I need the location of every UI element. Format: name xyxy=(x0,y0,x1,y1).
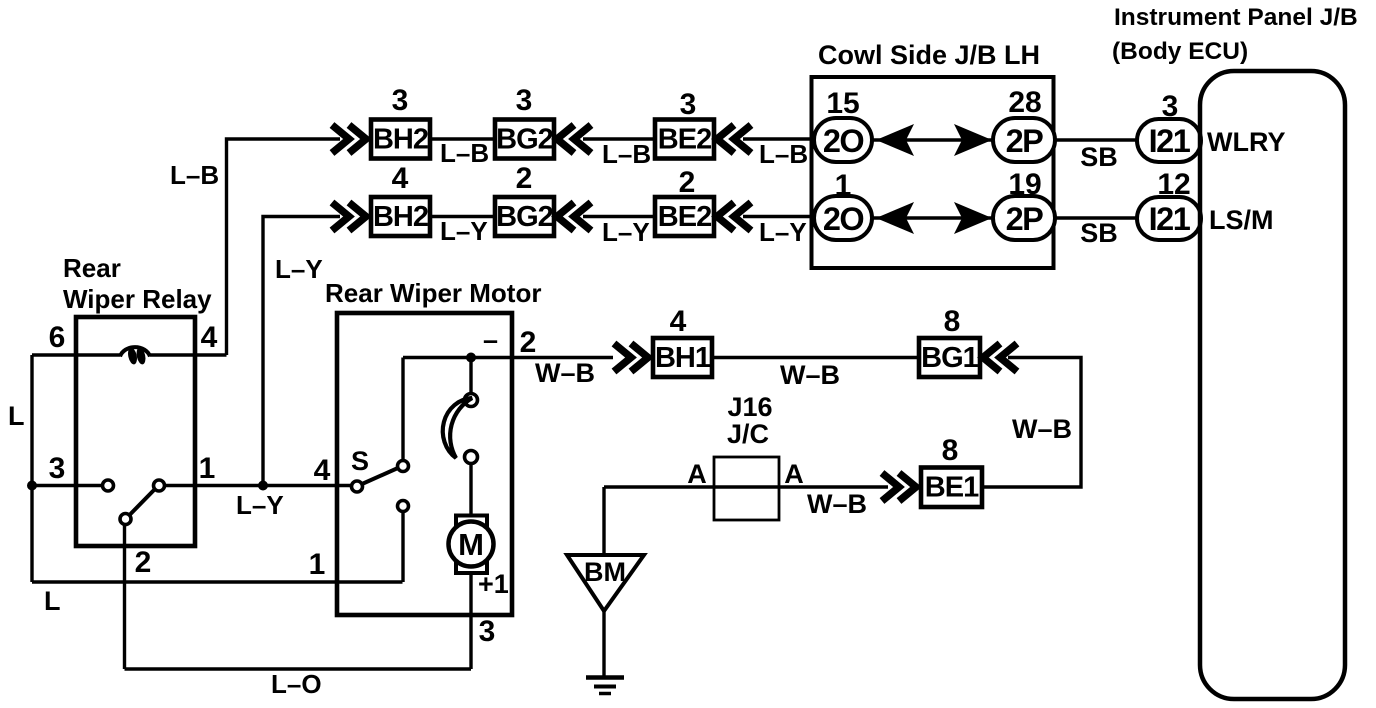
wire relay to motor S xyxy=(164,484,352,487)
svg-text:BG2: BG2 xyxy=(496,201,553,233)
wire inside cowl row1 xyxy=(872,138,993,141)
connector BG2 row1 xyxy=(495,120,554,159)
wire BG1 corner to BE1 xyxy=(982,358,1081,488)
connector BH1 xyxy=(653,338,712,377)
svg-text:W–B: W–B xyxy=(1012,414,1072,444)
cam crescent xyxy=(443,398,472,458)
svg-text:12: 12 xyxy=(1157,168,1190,201)
svg-text:L–O: L–O xyxy=(271,669,322,699)
svg-text:L–Y: L–Y xyxy=(602,217,650,247)
wire BH2 to BG2 row2 xyxy=(430,215,495,218)
arrow left row2 xyxy=(876,202,914,234)
chevrons after BG2 row2 xyxy=(557,203,591,231)
svg-text:Rear: Rear xyxy=(63,253,121,283)
connector BE2 row2 xyxy=(655,197,714,236)
wire BM to BE1 through J16 xyxy=(604,485,888,488)
wire cam top xyxy=(469,358,472,394)
svg-text:2: 2 xyxy=(516,162,533,195)
svg-text:2: 2 xyxy=(135,546,152,579)
svg-text:3: 3 xyxy=(680,88,697,121)
motor S arm xyxy=(362,468,399,485)
svg-text:M: M xyxy=(458,527,484,562)
svg-text:BG1: BG1 xyxy=(921,342,979,374)
wire BH1 to BG1 xyxy=(712,356,919,359)
motor S contact pivot xyxy=(352,481,363,492)
chevrons into BH1 xyxy=(614,344,648,372)
chevrons after BE2 row1 xyxy=(717,125,751,153)
connector BH2 row2 xyxy=(371,197,430,236)
connector BE2 row1 xyxy=(655,120,714,159)
svg-text:BE1: BE1 xyxy=(925,472,979,504)
connector 2O row2 xyxy=(814,196,872,240)
wire left vertical L xyxy=(30,355,33,582)
junction block J16 xyxy=(714,457,779,520)
arrow right row2 xyxy=(954,202,992,234)
svg-text:28: 28 xyxy=(1008,86,1041,119)
wire BG2 to BE2 row2 xyxy=(583,215,655,218)
svg-text:6: 6 xyxy=(49,321,66,354)
chevrons after BG2 row1 xyxy=(557,125,591,153)
connector I21 row1 xyxy=(1137,119,1201,162)
svg-text:BH2: BH2 xyxy=(373,201,428,233)
svg-text:L: L xyxy=(44,586,61,616)
svg-text:L–B: L–B xyxy=(602,139,651,169)
wire BH2 to BG2 xyxy=(430,137,495,140)
svg-text:2P: 2P xyxy=(1006,201,1044,237)
svg-text:4: 4 xyxy=(670,305,687,338)
svg-text:1: 1 xyxy=(199,452,216,485)
svg-text:L–B: L–B xyxy=(170,160,219,190)
node junction dot L-Y xyxy=(258,481,268,491)
svg-text:2: 2 xyxy=(679,166,696,199)
svg-text:BE2: BE2 xyxy=(658,124,711,156)
wire 2P to I21 row2 xyxy=(1055,216,1137,219)
svg-text:Cowl Side J/B LH: Cowl Side J/B LH xyxy=(818,40,1040,70)
svg-text:BE2: BE2 xyxy=(658,201,711,233)
wire L-B feed from relay coil up to row1 xyxy=(227,139,341,355)
node minus junction xyxy=(466,353,476,363)
svg-text:BG2: BG2 xyxy=(496,124,553,156)
svg-text:W–B: W–B xyxy=(535,358,595,388)
svg-text:3: 3 xyxy=(392,84,409,117)
wire BG2 to BE2 xyxy=(583,137,655,140)
svg-text:15: 15 xyxy=(826,87,859,120)
motor contact upper xyxy=(398,461,409,472)
motor brush bottom xyxy=(456,562,487,574)
svg-text:L–Y: L–Y xyxy=(440,216,488,246)
connector BG2 row2 xyxy=(495,197,554,236)
wire relay pin2 drop xyxy=(123,524,126,669)
cowl side J/B box xyxy=(812,77,1054,268)
svg-text:J/C: J/C xyxy=(727,419,769,449)
relay coil wire xyxy=(32,353,227,356)
svg-text:4: 4 xyxy=(392,162,409,195)
relay coil xyxy=(120,347,150,356)
svg-text:8: 8 xyxy=(944,305,961,338)
wire minus node to pin 2 xyxy=(403,356,613,359)
chevrons into BH2 row1 xyxy=(332,125,366,153)
svg-text:2O: 2O xyxy=(823,201,864,237)
wire bottom L-O xyxy=(125,667,472,670)
connector BH2 row1 xyxy=(371,120,430,159)
wire BE2 to cowl 2O row2 xyxy=(743,215,814,218)
relay contact circle left xyxy=(103,480,114,491)
svg-text:4: 4 xyxy=(201,321,218,354)
svg-text:19: 19 xyxy=(1008,168,1041,201)
wire BM to ground xyxy=(602,611,605,677)
rear wiper relay box xyxy=(76,317,195,546)
svg-text:SB: SB xyxy=(1080,142,1118,172)
cam contact bottom xyxy=(465,451,478,464)
motor brush top xyxy=(456,516,487,528)
svg-text:4: 4 xyxy=(314,454,331,487)
svg-text:L–Y: L–Y xyxy=(236,490,284,520)
rear wiper motor box xyxy=(337,313,512,615)
svg-text:L–B: L–B xyxy=(759,139,808,169)
wire BM drop xyxy=(602,487,605,555)
connector I21 row2 xyxy=(1137,197,1201,240)
connector 2O row1 xyxy=(814,118,872,162)
wire relay pin3 stub xyxy=(32,484,103,487)
wire lower L xyxy=(32,580,403,583)
wire inside cowl row2 xyxy=(872,216,993,219)
ground triangle BM xyxy=(567,555,644,611)
svg-text:3: 3 xyxy=(516,84,533,117)
wire lower contact to pin1 wire xyxy=(401,512,404,583)
svg-text:2O: 2O xyxy=(823,123,864,159)
wire 2P to I21 row1 xyxy=(1055,138,1137,141)
svg-text:W–B: W–B xyxy=(780,360,840,390)
svg-text:A: A xyxy=(687,459,707,489)
svg-text:Instrument Panel J/B: Instrument Panel J/B xyxy=(1114,4,1358,31)
svg-text:Wiper Relay: Wiper Relay xyxy=(63,284,212,314)
svg-text:S: S xyxy=(351,446,369,476)
svg-text:1: 1 xyxy=(309,548,326,581)
relay contact circle bottom xyxy=(120,514,131,525)
svg-text:BH1: BH1 xyxy=(655,342,711,374)
svg-text:I21: I21 xyxy=(1149,201,1191,237)
chevrons after BG1 xyxy=(983,344,1017,372)
wire BE2 to cowl 2O row1 xyxy=(743,137,814,140)
svg-text:L–Y: L–Y xyxy=(759,217,807,247)
connector 2P row2 xyxy=(993,196,1055,240)
svg-text:L–B: L–B xyxy=(440,138,489,168)
chevrons into BH2 row2 xyxy=(332,203,366,231)
wire L-Y feed row2 xyxy=(263,217,340,486)
relay contact circle right xyxy=(154,480,165,491)
svg-text:3: 3 xyxy=(479,615,496,648)
arrow right row1 xyxy=(954,124,992,156)
svg-text:–: – xyxy=(483,325,498,355)
svg-text:3: 3 xyxy=(49,452,66,485)
relay switch arm xyxy=(130,490,154,515)
svg-text:LS/M: LS/M xyxy=(1209,205,1274,235)
svg-text:L–Y: L–Y xyxy=(275,254,323,284)
chevrons after BE2 row2 xyxy=(717,203,751,231)
connector BG1 xyxy=(919,338,980,377)
ground symbol xyxy=(586,678,624,694)
svg-text:+1: +1 xyxy=(478,569,509,599)
arrow left row1 xyxy=(876,124,914,156)
cam contact top xyxy=(465,394,478,407)
svg-text:(Body ECU): (Body ECU) xyxy=(1112,38,1248,65)
svg-text:WLRY: WLRY xyxy=(1207,127,1285,157)
svg-text:I21: I21 xyxy=(1149,123,1191,159)
svg-text:A: A xyxy=(784,459,804,489)
chevrons into BE1 xyxy=(882,473,916,501)
svg-text:W–B: W–B xyxy=(807,489,867,519)
node junction dot left xyxy=(27,481,37,491)
svg-text:8: 8 xyxy=(942,434,959,467)
connector BE1 xyxy=(921,468,982,508)
motor M circle xyxy=(449,522,494,567)
svg-text:L: L xyxy=(8,401,25,431)
wire cam to motor xyxy=(469,464,472,523)
svg-text:BM: BM xyxy=(584,557,626,587)
connector 2P row1 xyxy=(993,118,1055,162)
svg-text:BH2: BH2 xyxy=(373,124,428,156)
svg-text:3: 3 xyxy=(1162,90,1179,123)
svg-text:Rear Wiper Motor: Rear Wiper Motor xyxy=(325,278,541,308)
svg-text:2P: 2P xyxy=(1006,123,1044,159)
svg-text:SB: SB xyxy=(1080,218,1118,248)
instrument panel J/B box xyxy=(1200,71,1345,699)
wire motor pin3 drop xyxy=(469,573,472,669)
svg-text:J16: J16 xyxy=(727,392,772,422)
motor contact lower xyxy=(398,501,409,512)
svg-text:2: 2 xyxy=(520,326,537,359)
wire upper contact to minus node xyxy=(401,358,404,461)
